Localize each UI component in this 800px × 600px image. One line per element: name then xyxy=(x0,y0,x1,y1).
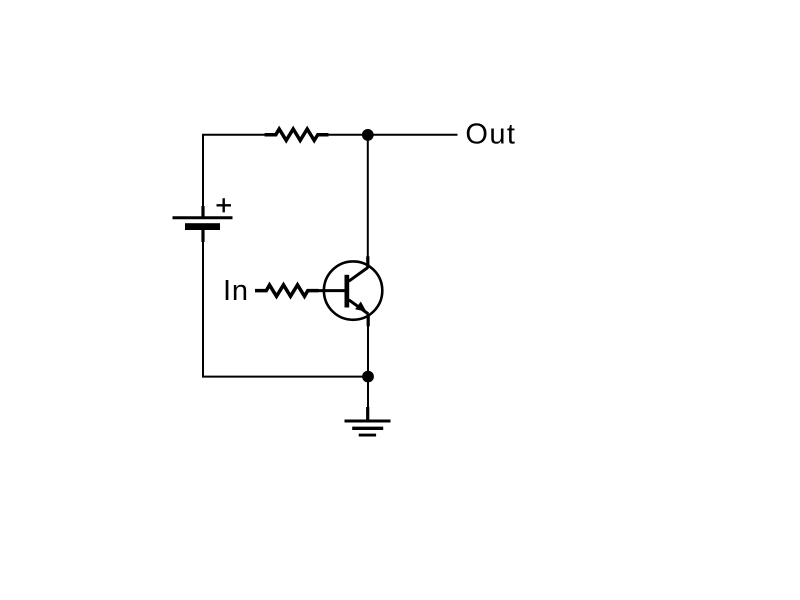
svg-text:In: In xyxy=(223,275,249,307)
svg-text:Out: Out xyxy=(465,118,516,150)
